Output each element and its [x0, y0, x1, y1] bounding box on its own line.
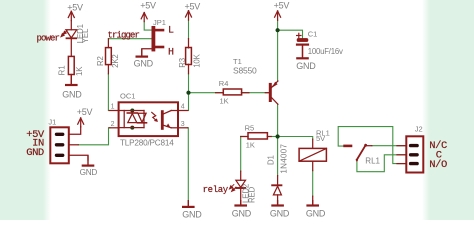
svg-text:GND: GND: [134, 58, 154, 68]
svg-text:2: 2: [111, 121, 115, 128]
svg-text:GND: GND: [232, 208, 252, 218]
svg-text:R2: R2: [96, 56, 105, 66]
svg-text:S8550: S8550: [233, 65, 257, 75]
svg-text:R1: R1: [58, 66, 67, 76]
svg-text:+5V: +5V: [274, 0, 290, 10]
svg-text:GND: GND: [62, 90, 82, 100]
svg-text:+5V: +5V: [140, 1, 156, 11]
svg-text:N/O: N/O: [429, 159, 447, 171]
svg-text:C1: C1: [308, 30, 318, 39]
svg-text:GND: GND: [26, 147, 44, 159]
svg-text:1K: 1K: [246, 140, 255, 149]
svg-text:3: 3: [181, 121, 185, 128]
svg-text:100uF/16v: 100uF/16v: [308, 47, 343, 56]
svg-text:1K: 1K: [75, 66, 84, 76]
svg-text:2K2: 2K2: [111, 54, 120, 68]
svg-text:J1: J1: [48, 118, 56, 127]
svg-text:relay: relay: [203, 185, 229, 195]
svg-text:GND: GND: [296, 61, 316, 71]
svg-text:+5V: +5V: [77, 107, 93, 117]
svg-text:4: 4: [181, 103, 185, 110]
svg-text:JP1: JP1: [153, 18, 166, 27]
svg-text:trigger: trigger: [108, 31, 140, 41]
svg-text:10K: 10K: [193, 53, 202, 67]
svg-text:R4: R4: [219, 79, 229, 88]
svg-text:TLP280/PC814: TLP280/PC814: [120, 138, 174, 147]
svg-text:RED: RED: [248, 186, 257, 203]
svg-text:+5V: +5V: [185, 2, 201, 12]
svg-text:R3: R3: [178, 58, 187, 68]
svg-text:YEL: YEL: [81, 28, 90, 43]
svg-text:GND: GND: [80, 168, 98, 177]
svg-text:J2: J2: [415, 124, 423, 133]
svg-text:D1: D1: [266, 155, 275, 165]
svg-text:GND: GND: [270, 208, 290, 218]
svg-text:1K: 1K: [220, 97, 229, 106]
svg-text:GND: GND: [306, 208, 326, 218]
svg-text:L: L: [168, 25, 174, 36]
svg-text:power: power: [37, 34, 60, 44]
svg-text:RL1: RL1: [365, 156, 380, 165]
svg-text:5V: 5V: [316, 134, 325, 143]
svg-text:1N4007: 1N4007: [280, 144, 289, 174]
svg-text:GND: GND: [182, 209, 202, 219]
svg-text:H: H: [168, 48, 174, 59]
svg-text:R5: R5: [245, 123, 255, 132]
svg-text:+5V: +5V: [67, 2, 83, 12]
svg-text:OC1: OC1: [120, 92, 135, 101]
svg-text:1: 1: [111, 103, 115, 110]
